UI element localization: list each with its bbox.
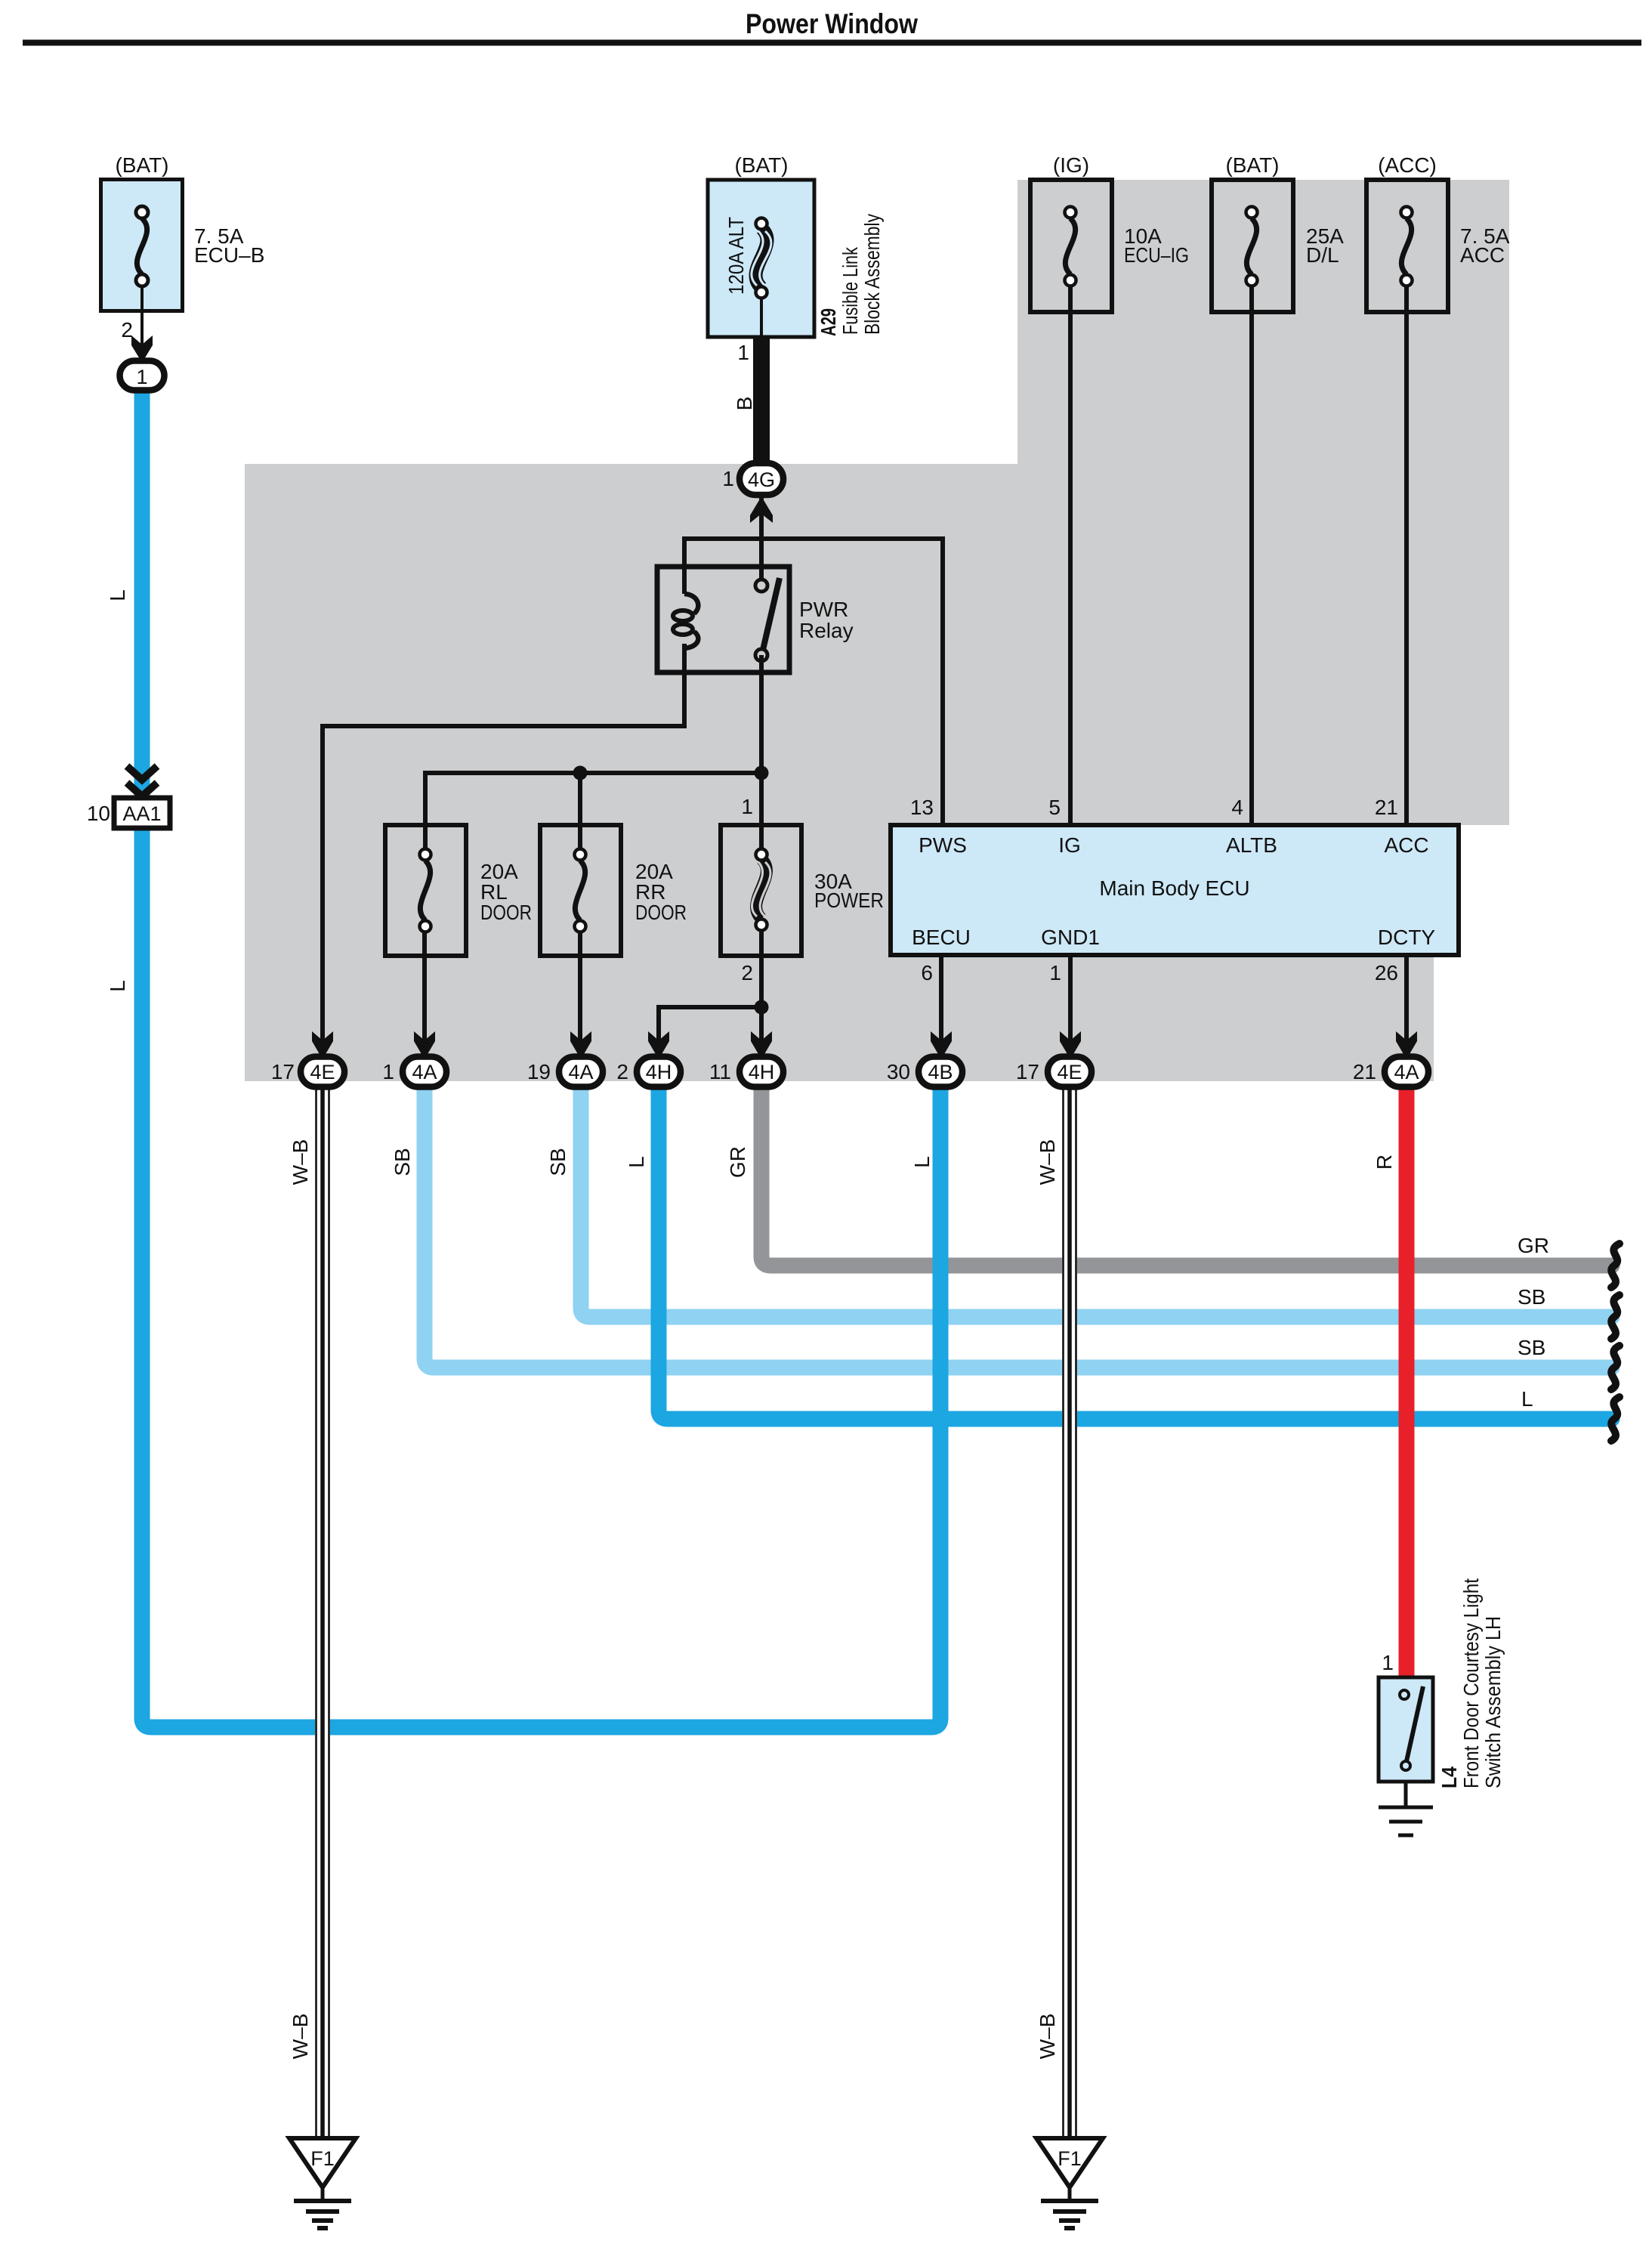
svg-text:Power Window: Power Window — [746, 8, 918, 39]
svg-text:L: L — [910, 1156, 934, 1168]
svg-text:26: 26 — [1375, 961, 1398, 984]
svg-text:Front Door Courtesy Light: Front Door Courtesy Light — [1459, 1578, 1483, 1788]
switch blade — [1407, 1686, 1423, 1761]
svg-text:PWS: PWS — [919, 833, 967, 857]
svg-text:F1: F1 — [310, 2147, 335, 2170]
svg-text:B: B — [733, 397, 756, 411]
wire L main loop from fuse ECU-B via AA1 to 30 4B — [142, 385, 940, 1727]
svg-text:21: 21 — [1375, 796, 1398, 819]
svg-text:L: L — [625, 1156, 648, 1168]
wire fuse to ECU ACC pin — [1404, 286, 1409, 825]
svg-text:4: 4 — [1231, 796, 1243, 819]
wire from fuse to connector — [140, 286, 144, 363]
svg-text:ACC: ACC — [1384, 833, 1428, 857]
svg-text:11: 11 — [709, 1060, 731, 1083]
wire BECU to 30 4B — [939, 955, 943, 1058]
wire 30A fuse to 11 4H — [759, 932, 764, 1058]
svg-text:4E: 4E — [310, 1061, 335, 1083]
svg-text:4B: 4B — [928, 1061, 953, 1083]
svg-text:SB: SB — [1518, 1336, 1545, 1359]
fuse RL DOOR box — [385, 825, 466, 956]
svg-text:4A: 4A — [412, 1061, 437, 1083]
svg-text:DCTY: DCTY — [1378, 926, 1436, 949]
fuse RR DOOR box — [540, 825, 621, 956]
svg-text:2: 2 — [121, 318, 133, 342]
svg-text:GR: GR — [1518, 1234, 1549, 1257]
junction dot — [755, 1000, 769, 1015]
connector AA1 box — [114, 798, 170, 828]
svg-text:PWR: PWR — [799, 598, 848, 621]
svg-text:17: 17 — [271, 1060, 295, 1083]
connector 19 4A — [527, 1031, 603, 1087]
arrow up into 4G — [750, 496, 773, 523]
fuse RL DOOR symbol — [420, 849, 431, 932]
wire branch to 2 4H — [659, 1007, 761, 1058]
wire B (thick black) — [753, 337, 770, 464]
svg-text:6: 6 — [921, 961, 933, 984]
svg-text:L: L — [106, 589, 129, 601]
svg-text:IG: IG — [1058, 833, 1081, 857]
connector oval 1 — [120, 361, 165, 391]
wire GND1 to 17 4E — [1068, 955, 1073, 1058]
svg-text:L: L — [106, 980, 129, 992]
svg-text:GR: GR — [726, 1146, 749, 1178]
wire coil top to PWS horizontal — [684, 539, 943, 825]
svg-text:4E: 4E — [1057, 1061, 1082, 1083]
connector AA1 double chevron — [127, 766, 157, 780]
wire relay to 30A fuse and 11 4H — [759, 655, 764, 855]
wire squiggle end L — [1611, 1397, 1620, 1441]
svg-text:1: 1 — [737, 341, 749, 364]
svg-text:A29: A29 — [817, 308, 840, 336]
svg-text:(BAT): (BAT) — [734, 153, 788, 177]
fuse ACC box — [1366, 180, 1448, 312]
svg-text:1: 1 — [741, 795, 753, 818]
connector 21 4A — [1353, 1031, 1428, 1087]
connector oval 4G — [740, 463, 783, 495]
svg-text:10: 10 — [87, 802, 110, 825]
wire RL fuse to 1 4A — [422, 932, 427, 1058]
wire branch to door fuses — [425, 773, 761, 855]
svg-text:ECU–IG: ECU–IG — [1124, 243, 1189, 267]
svg-text:1: 1 — [382, 1060, 394, 1083]
svg-text:BECU: BECU — [912, 926, 971, 949]
fuse RR DOOR symbol — [575, 849, 586, 932]
wire inside fuse — [760, 298, 763, 337]
svg-text:(IG): (IG) — [1053, 153, 1089, 177]
connector 17 4E — [271, 1031, 344, 1087]
svg-text:19: 19 — [527, 1060, 551, 1083]
shaded harness area (center band) — [245, 464, 1509, 825]
svg-text:ALTB: ALTB — [1226, 833, 1277, 857]
svg-text:ECU–B: ECU–B — [194, 243, 264, 267]
svg-text:F1: F1 — [1058, 2147, 1082, 2170]
fuse ECU-B box — [101, 180, 183, 311]
svg-text:SB: SB — [546, 1148, 570, 1176]
wire squiggle end GR — [1611, 1244, 1620, 1287]
wire coil bottom to 17 4E — [323, 644, 684, 1058]
svg-text:(BAT): (BAT) — [115, 153, 168, 177]
svg-text:5: 5 — [1048, 796, 1061, 819]
svg-text:Main Body ECU: Main Body ECU — [1099, 876, 1249, 900]
svg-text:4A: 4A — [568, 1061, 593, 1083]
connector 30 4B — [887, 1031, 962, 1087]
svg-text:SB: SB — [391, 1148, 414, 1176]
title rule — [23, 40, 1641, 46]
svg-text:Block Assembly: Block Assembly — [860, 214, 884, 335]
wire to ground — [1404, 1782, 1408, 1807]
svg-text:ACC: ACC — [1460, 243, 1505, 267]
svg-text:D/L: D/L — [1306, 243, 1339, 267]
relay box — [657, 567, 789, 672]
ground symbol — [1379, 1807, 1433, 1835]
svg-text:1: 1 — [722, 467, 734, 490]
svg-text:4A: 4A — [1394, 1061, 1419, 1083]
connector 11 4H — [709, 1031, 783, 1087]
svg-text:Fusible Link: Fusible Link — [838, 246, 862, 335]
svg-text:Relay: Relay — [799, 619, 854, 642]
svg-text:AA1: AA1 — [122, 802, 161, 825]
svg-text:L: L — [1521, 1387, 1533, 1411]
svg-text:1: 1 — [1049, 961, 1061, 984]
junction dot — [573, 766, 588, 780]
wire L from 2 4H to right edge — [659, 1071, 1612, 1419]
svg-text:W–B: W–B — [1036, 1139, 1059, 1185]
fusible link symbol 120A — [752, 218, 771, 298]
junction dot — [755, 766, 769, 780]
svg-text:R: R — [1373, 1154, 1396, 1170]
fuse D/L box — [1212, 180, 1293, 312]
fuse ACC symbol — [1401, 207, 1413, 286]
wire squiggle end SB — [1611, 1295, 1620, 1339]
svg-text:L4: L4 — [1437, 1766, 1461, 1788]
svg-text:4G: 4G — [748, 468, 775, 491]
wire GR from 11 4H to right edge — [761, 1071, 1612, 1266]
switch L4 box — [1379, 1677, 1433, 1782]
shaded harness area (right column) — [1017, 180, 1509, 825]
connector 17 4E (GND1) — [1016, 1031, 1092, 1087]
svg-text:POWER: POWER — [814, 889, 884, 912]
svg-text:4H: 4H — [646, 1061, 672, 1083]
svg-text:4H: 4H — [749, 1061, 775, 1083]
wire R from 21 4A to courtesy switch — [1399, 1071, 1415, 1679]
Main Body ECU box — [891, 825, 1459, 955]
svg-text:1: 1 — [1382, 1651, 1394, 1674]
wire from 4G to relay — [759, 495, 764, 586]
wire fuse to ECU ALTB pin — [1249, 286, 1254, 825]
relay switch blade — [763, 578, 780, 650]
wire squiggle end SB — [1611, 1346, 1620, 1389]
svg-text:21: 21 — [1353, 1060, 1376, 1083]
fusible link symbol 30A — [752, 849, 770, 931]
svg-text:120A ALT: 120A ALT — [724, 217, 748, 295]
fuse D/L symbol — [1246, 207, 1258, 286]
wire SB from 1 4A to right edge — [425, 1071, 1612, 1368]
connector 1 4A — [382, 1031, 446, 1087]
fuse ECU-B symbol — [136, 206, 148, 286]
fusible link box — [708, 180, 814, 337]
wire RR fuse to 19 4A — [578, 932, 582, 1058]
svg-text:W–B: W–B — [289, 1139, 312, 1185]
fuse ECU-IG box — [1030, 180, 1112, 312]
svg-text:(ACC): (ACC) — [1378, 153, 1437, 177]
svg-text:GND1: GND1 — [1041, 926, 1100, 949]
svg-text:2: 2 — [616, 1060, 628, 1083]
wire branch down to RR fuse — [578, 773, 582, 855]
svg-text:30: 30 — [887, 1060, 910, 1083]
arrow into connector 1 — [131, 335, 153, 363]
relay coil — [682, 567, 687, 594]
wire W-B from 17 4E (GND1) to ground F1 — [1062, 1071, 1077, 2138]
wire W-B from 17 4E to ground F1 — [315, 1071, 330, 2138]
relay contacts — [755, 580, 767, 592]
svg-text:W–B: W–B — [289, 2014, 312, 2060]
svg-text:(BAT): (BAT) — [1225, 153, 1279, 177]
fuse 30A POWER box — [721, 825, 801, 956]
svg-text:17: 17 — [1016, 1060, 1039, 1083]
svg-text:13: 13 — [910, 796, 934, 819]
svg-text:DOOR: DOOR — [480, 901, 532, 924]
svg-text:1: 1 — [136, 366, 147, 388]
svg-text:SB: SB — [1518, 1285, 1545, 1309]
wire fuse to ECU IG pin — [1068, 286, 1073, 825]
svg-text:DOOR: DOOR — [635, 901, 687, 924]
svg-text:Switch Assembly LH: Switch Assembly LH — [1481, 1616, 1505, 1788]
fuse ECU-IG symbol — [1065, 207, 1076, 286]
connector 2 4H — [616, 1031, 681, 1087]
shaded harness area (lower band) — [245, 825, 1434, 1081]
switch contacts — [1400, 1690, 1409, 1699]
wire DCTY to 21 4A — [1404, 955, 1409, 1058]
svg-text:W–B: W–B — [1036, 2014, 1059, 2060]
wire SB from 19 4A to right edge — [581, 1071, 1612, 1317]
svg-text:2: 2 — [741, 961, 753, 984]
